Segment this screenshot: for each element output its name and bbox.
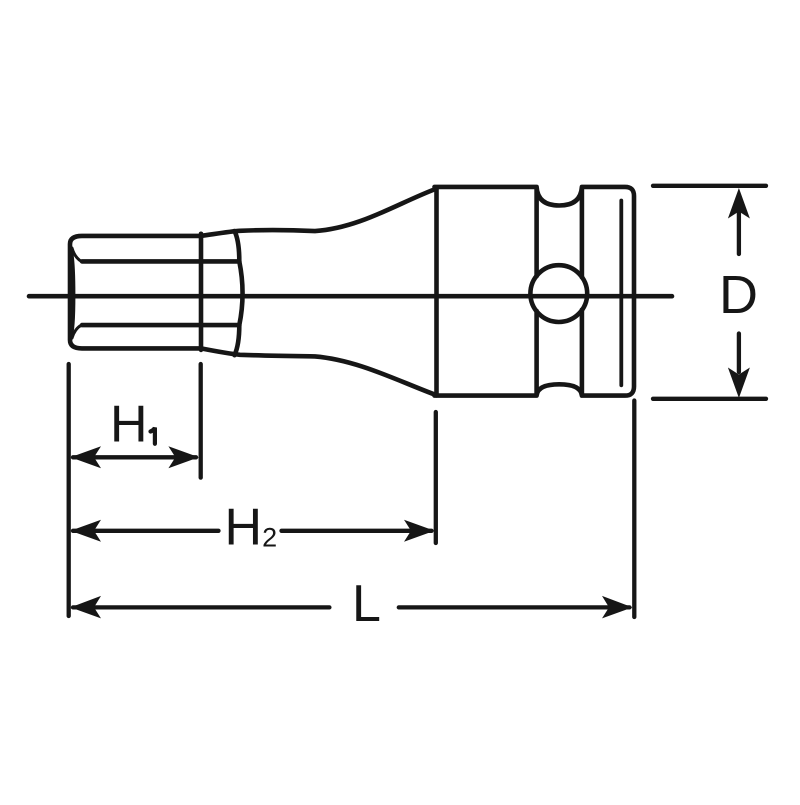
L dimension line left segment xyxy=(73,605,329,609)
label H1 subscript 1 xyxy=(151,428,155,444)
svg-text:H2: H2 xyxy=(225,499,278,557)
svg-text:D: D xyxy=(719,265,758,325)
L arrowhead right xyxy=(602,596,633,619)
H2 right extension line xyxy=(434,412,438,543)
nose curve upper xyxy=(235,231,240,261)
socket body outline with ring grooves and rounded right end xyxy=(435,187,635,396)
H1 arrowhead right xyxy=(168,446,199,468)
H1 arrowhead left xyxy=(71,446,102,468)
hex lower flat line xyxy=(82,323,239,328)
H1 dimension line xyxy=(73,455,196,459)
L right extension line xyxy=(632,401,636,618)
H2 arrowhead right xyxy=(404,520,435,542)
end cap inner edge line xyxy=(619,201,623,386)
groove boundary line left lower xyxy=(534,311,539,394)
hex upper flat line xyxy=(82,259,239,264)
H2 dimension line right segment xyxy=(282,529,432,533)
nose curve lower xyxy=(235,325,240,355)
L dimension line right segment xyxy=(399,605,630,609)
hex chamfer wedge bottom xyxy=(72,325,82,338)
hex / nose junction line xyxy=(199,234,204,350)
H1 right extension line xyxy=(199,364,203,478)
H1 left extension line (shared with H2 and L) xyxy=(67,364,71,616)
hex chamfer wedge top xyxy=(72,248,82,261)
H2 dimension line left segment xyxy=(73,529,219,533)
groove boundary line left upper xyxy=(534,189,539,276)
svg-text:L: L xyxy=(352,575,381,633)
D extension line bottom xyxy=(653,397,766,401)
D arrowhead down xyxy=(728,368,750,399)
nose top contour xyxy=(201,189,437,236)
D dimension line lower shaft xyxy=(737,334,741,373)
nose bottom contour xyxy=(201,348,437,395)
L arrowhead left xyxy=(71,596,102,619)
svg-text:H: H xyxy=(110,396,148,454)
groove boundary line right upper xyxy=(580,189,585,277)
D extension line top xyxy=(653,184,766,188)
D dimension line upper shaft xyxy=(737,212,741,254)
D arrowhead up xyxy=(728,188,750,219)
groove boundary line right lower xyxy=(580,310,585,394)
pin hole circle xyxy=(530,265,587,322)
nose curve middle bulge xyxy=(239,261,242,325)
hex bit end chamfer bulge xyxy=(71,248,74,337)
socket front face xyxy=(434,187,439,395)
hex bit body outline xyxy=(70,236,201,349)
centerline xyxy=(29,294,672,299)
H2 arrowhead left xyxy=(71,520,102,542)
